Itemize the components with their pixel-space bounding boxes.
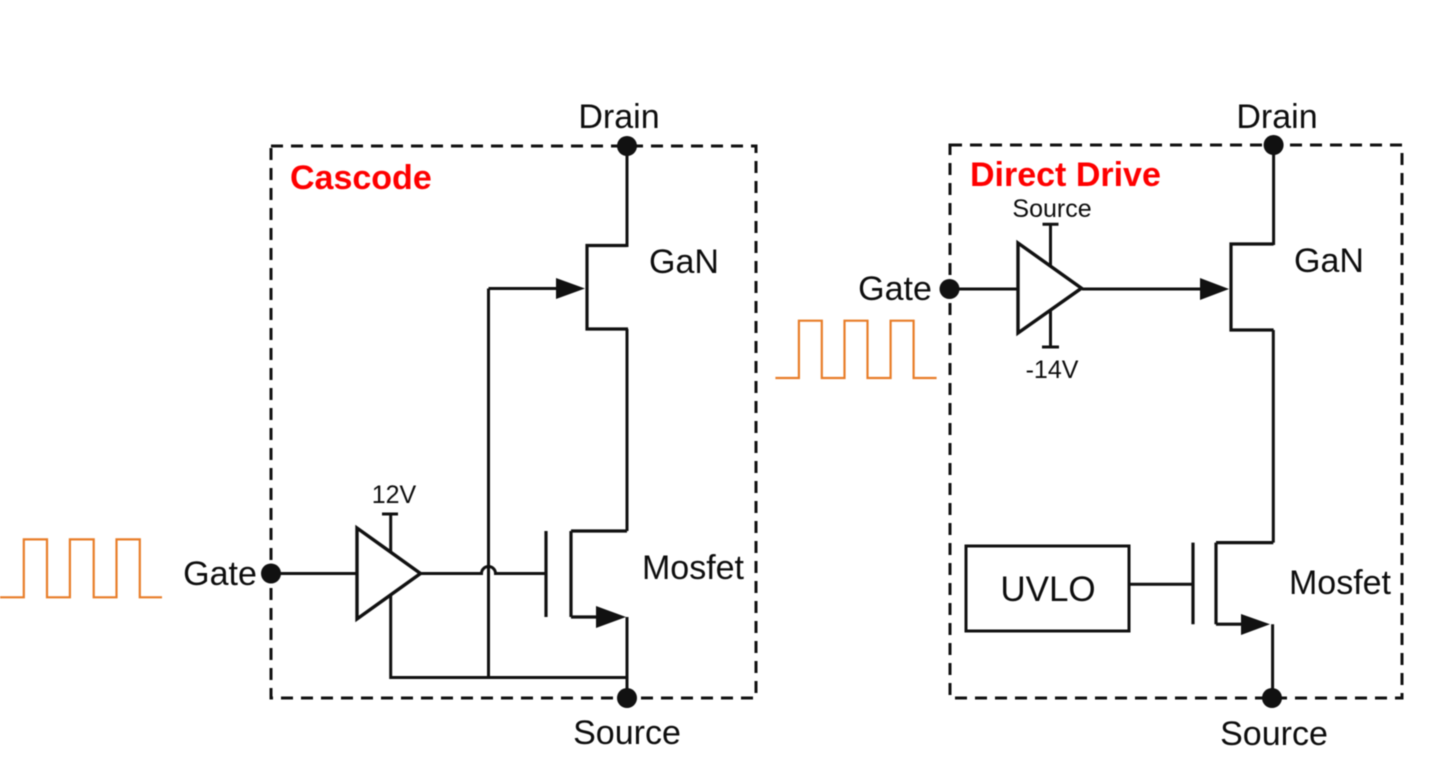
wire mosfet drain to GaN source (right) (1272, 330, 1275, 543)
node Source (right) (1262, 688, 1282, 708)
wire UVLO to mosfet gate (1129, 583, 1193, 586)
svg-text:Gate: Gate (858, 270, 932, 308)
svg-text:Source: Source (1012, 195, 1091, 223)
wire mosfet drain to GaN source (left) (626, 329, 629, 531)
svg-text:Source: Source (573, 714, 681, 752)
wire mosfet source to Source node (left) (626, 617, 629, 698)
svg-text:Mosfet: Mosfet (1289, 564, 1392, 602)
wire driver ground return (left) (391, 594, 627, 678)
wire driver output with hop (left) (421, 567, 547, 574)
wire gate input (left) (271, 572, 357, 575)
svg-text:Drain: Drain (1236, 98, 1317, 136)
op-amp driver U2 (right) (1018, 243, 1082, 333)
transistor GaN (right) (1231, 244, 1274, 330)
svg-text:GaN: GaN (649, 243, 719, 281)
supply -14V tap (1042, 310, 1059, 348)
node Gate (right) (940, 279, 960, 299)
svg-text:Drain: Drain (578, 98, 659, 136)
wire driver output arrow (right) (1082, 278, 1229, 300)
wire mosfet source to Source node (right) (1271, 624, 1274, 698)
wire drain to GaN (left) (626, 146, 629, 247)
node Drain (right) (1264, 135, 1284, 155)
svg-text:Gate: Gate (183, 555, 257, 593)
wire drain to GaN (right) (1272, 145, 1275, 245)
svg-text:Cascode: Cascode (290, 159, 432, 197)
svg-text:-14V: -14V (1026, 356, 1079, 384)
cascode block dashed box (271, 146, 756, 698)
svg-text:Source: Source (1220, 715, 1328, 753)
op-amp driver U1 (left) (357, 528, 421, 619)
node Gate (left) (261, 564, 281, 584)
transistor Mosfet (left) (546, 531, 627, 628)
supply source tap (right driver) (1043, 224, 1059, 266)
svg-text:Direct Drive: Direct Drive (970, 156, 1161, 194)
supply 12V tap (382, 514, 398, 552)
direct drive block dashed box (950, 145, 1402, 698)
wire gate input (right) (950, 288, 1019, 291)
box UVLO (966, 546, 1129, 631)
waveform gate signal (left) (0, 539, 162, 597)
waveform gate signal (right) (775, 321, 936, 378)
node Source (left) (617, 688, 637, 708)
svg-text:Mosfet: Mosfet (642, 549, 745, 587)
svg-text:UVLO: UVLO (1000, 570, 1095, 609)
transistor Mosfet (right) (1193, 543, 1273, 635)
svg-text:GaN: GaN (1294, 242, 1364, 280)
wire GaN gate arrow (left) (489, 278, 586, 299)
node Drain (left) (617, 136, 637, 156)
svg-text:12V: 12V (372, 481, 417, 509)
wire GaN gate to source rail (left) (487, 289, 490, 678)
transistor GaN (left) (587, 246, 628, 330)
